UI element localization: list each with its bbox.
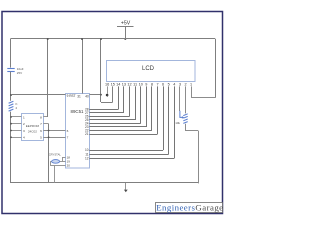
wire U1 pin 28 to LCD pin 14 <box>89 109 118 111</box>
svg-text:5: 5 <box>168 82 170 86</box>
svg-text:13: 13 <box>122 82 126 86</box>
junction U2 pin 4 on left rail <box>10 136 12 138</box>
svg-text:14: 14 <box>116 82 120 86</box>
svg-text:31: 31 <box>77 95 81 99</box>
wire +5V terminal bar <box>117 26 134 28</box>
svg-text:8: 8 <box>40 115 42 119</box>
wire right +5V rail <box>215 39 217 98</box>
ground symbol bottom center <box>125 183 127 190</box>
crystal X1 body <box>52 160 60 164</box>
wire left rail lower segment to ground rail <box>10 112 12 183</box>
wire U1 pin 27 to LCD pin 13 <box>89 112 124 114</box>
junction +5V on top rail <box>124 38 126 40</box>
svg-text:4: 4 <box>173 82 175 86</box>
svg-text:7: 7 <box>156 82 158 86</box>
svg-text:CRYSTAL: CRYSTAL <box>49 153 62 157</box>
microcontroller U1 89C51 box <box>66 94 90 169</box>
svg-text:7: 7 <box>40 122 42 126</box>
junction pin8 riser on top rail <box>47 38 49 40</box>
svg-text:9: 9 <box>145 82 147 86</box>
svg-text:12: 12 <box>85 156 89 160</box>
wire U1 pin 10 to LCD pin 6 <box>89 150 163 152</box>
wire crystal to U1 pin 18 <box>62 157 64 161</box>
wire U1 pin 12 to LCD pin 4 <box>89 158 174 160</box>
svg-text:24C02: 24C02 <box>28 130 37 134</box>
wire U2 pin 5 SDA to U1 <box>43 137 65 139</box>
logo EngineersGarage box <box>156 203 223 213</box>
capacitor C1 10uF plates <box>7 68 14 70</box>
wire LCD pin16 stub <box>107 86 109 93</box>
svg-text:21: 21 <box>85 132 89 136</box>
svg-text:6: 6 <box>67 129 69 133</box>
resistor R1 (reset pulldown) zigzag <box>9 101 14 103</box>
svg-text:+5V: +5V <box>121 21 131 27</box>
wire U1 pin 20 GND to ground rail <box>50 161 52 165</box>
junction pin31 riser on top rail <box>81 38 83 40</box>
wire +5V stub down to top rail <box>125 27 127 39</box>
svg-text:EngineersGarage: EngineersGarage <box>156 202 223 212</box>
wire U2 pin 1 to left rail <box>11 116 21 118</box>
svg-text:9 RST: 9 RST <box>67 94 76 98</box>
wire RV1 bottom to ground rail <box>185 124 187 131</box>
eeprom U2 24C02 box <box>22 114 44 141</box>
svg-text:LCD: LCD <box>142 66 155 72</box>
svg-text:EEPROM: EEPROM <box>26 124 40 128</box>
svg-text:1: 1 <box>23 115 25 119</box>
junction U2 pin 3 on left rail <box>10 130 12 132</box>
wire U1 pin 22 to LCD pin 8 <box>89 130 152 132</box>
junction pin40 corner <box>100 94 102 96</box>
junction SCL crossing <box>48 130 50 132</box>
wire U1 pin 26 to LCD pin 12 <box>89 116 129 118</box>
wire U1 pin 24 to LCD pin 10 <box>89 123 140 125</box>
wire LCD pin15 backlight to +5V (via pin40 riser) <box>101 102 113 104</box>
wire crystal lead <box>50 161 62 163</box>
display module LCD box <box>107 61 196 82</box>
wire crystal to U1 pin 19 <box>62 161 66 163</box>
svg-text:89C51: 89C51 <box>71 109 84 114</box>
wire top +5V rail <box>11 38 216 40</box>
svg-text:20: 20 <box>67 164 71 168</box>
wire U1 pin 21 to LCD pin 7 <box>89 134 157 136</box>
wire U1 pin 11 to LCD pin 5 <box>89 154 168 156</box>
wire U1 pin 31 EA to +5V rail <box>82 39 84 94</box>
svg-text:1: 1 <box>190 82 192 86</box>
wire RST from left rail to U1 pin 9 <box>11 94 66 96</box>
wire U2 pin 2 to left rail <box>11 123 21 125</box>
svg-text:6: 6 <box>162 82 164 86</box>
svg-text:12: 12 <box>127 82 131 86</box>
wire bottom ground rail <box>11 182 199 184</box>
svg-text:25V: 25V <box>17 71 22 75</box>
svg-text:3: 3 <box>179 82 181 86</box>
svg-text:40: 40 <box>85 95 89 99</box>
wire LCD pin3 VEE stub <box>179 86 181 111</box>
wire U1 pin 23 to LCD pin 9 <box>89 126 146 128</box>
border frame (decorative) <box>2 12 223 214</box>
potentiometer RV1 10k body <box>183 114 187 116</box>
svg-text:2: 2 <box>184 82 186 86</box>
wire U2 pin 7 down to ground rail <box>43 123 48 125</box>
wire left rail upper segment (to capacitor) <box>10 39 12 68</box>
svg-text:5: 5 <box>40 136 42 140</box>
svg-text:6: 6 <box>40 129 42 133</box>
wire left rail from capacitor to RST junction <box>10 72 12 101</box>
wire LCD pin1 to right +5V rail <box>191 86 193 97</box>
svg-text:16: 16 <box>105 82 109 86</box>
svg-text:10k: 10k <box>175 121 180 125</box>
wire U2 pin 8 VCC up to +5V rail <box>43 116 47 118</box>
svg-text:4: 4 <box>23 136 25 140</box>
junction U2 pin 1 on left rail <box>10 116 12 118</box>
junction U2 pin 2 on left rail <box>10 123 12 125</box>
wire U2 pin 6 SCL to U1 <box>43 130 65 132</box>
wire U2 pin 3 to left rail <box>11 130 21 132</box>
junction pin40 riser on top rail <box>100 38 102 40</box>
wire U1 pin 40 VCC to +5V rail <box>90 94 102 96</box>
wire U1 pin 25 to LCD pin 11 <box>89 119 135 121</box>
svg-text:10: 10 <box>139 82 143 86</box>
svg-text:3: 3 <box>23 129 25 133</box>
wire LCD pin2 stub to RV1 top <box>185 86 187 113</box>
wire U2 pin 4 to left rail <box>11 137 21 139</box>
svg-text:2: 2 <box>23 122 25 126</box>
junction SDA crossing <box>48 136 50 138</box>
svg-text:15: 15 <box>111 82 115 86</box>
svg-text:11: 11 <box>133 82 137 86</box>
potentiometer RV1 wiper arm <box>180 111 183 118</box>
svg-text:7: 7 <box>67 136 69 140</box>
junction RST node on left rail <box>10 94 12 96</box>
ground symbol at LCD pin16 <box>106 94 109 97</box>
svg-text:8: 8 <box>151 82 153 86</box>
